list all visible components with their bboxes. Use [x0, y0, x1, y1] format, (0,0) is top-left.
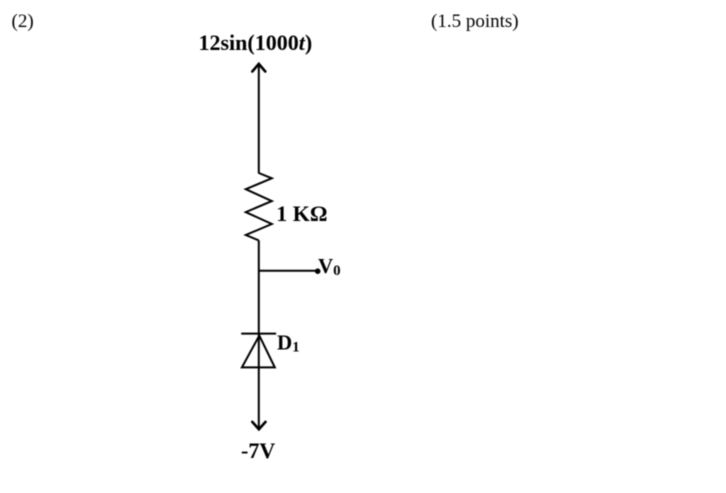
- svg-text:(2): (2): [12, 11, 34, 32]
- svg-text:12sin(1000t): 12sin(1000t): [199, 30, 313, 55]
- svg-text:1 KΩ: 1 KΩ: [276, 201, 327, 226]
- svg-text:(1.5 points): (1.5 points): [431, 11, 519, 32]
- svg-text:-7V: -7V: [241, 438, 275, 463]
